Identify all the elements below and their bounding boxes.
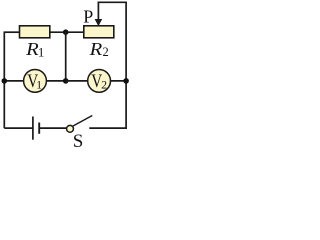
voltmeter V2	[88, 70, 111, 93]
node dot middle	[63, 78, 69, 84]
svg-text:S: S	[73, 131, 84, 147]
resistor R1	[20, 26, 50, 38]
wire R1 left lead	[4, 31, 20, 33]
battery long plate	[32, 117, 34, 140]
svg-text:R: R	[88, 39, 102, 59]
battery short plate	[38, 123, 40, 134]
switch S pivot	[67, 125, 74, 132]
wire bottom left	[4, 127, 33, 129]
wire middle node to V2	[66, 80, 88, 82]
wire V1 to middle node	[46, 80, 65, 82]
node junction top	[63, 29, 69, 35]
switch S lever	[72, 116, 92, 127]
wire top right horizontal	[98, 1, 127, 3]
node dot left	[2, 78, 8, 84]
wire right vertical	[125, 2, 127, 129]
voltmeter V1	[24, 70, 47, 93]
wire V2 right lead	[110, 80, 126, 82]
svg-text:2: 2	[101, 80, 107, 92]
wire battery to switch	[39, 127, 66, 129]
wire bottom right	[89, 127, 127, 129]
wire between R1 and R2	[50, 31, 84, 33]
resistor R2	[84, 26, 114, 38]
svg-text:P: P	[83, 6, 93, 26]
svg-text:1: 1	[38, 44, 45, 59]
potentiometer wiper arrow	[97, 2, 99, 21]
node dot right	[123, 78, 129, 84]
wire middle vertical	[65, 32, 67, 81]
svg-text:2: 2	[103, 45, 109, 59]
svg-text:1: 1	[36, 80, 42, 92]
svg-text:R: R	[25, 39, 39, 59]
wire V1 left lead	[4, 80, 24, 82]
wire left vertical	[3, 32, 5, 128]
